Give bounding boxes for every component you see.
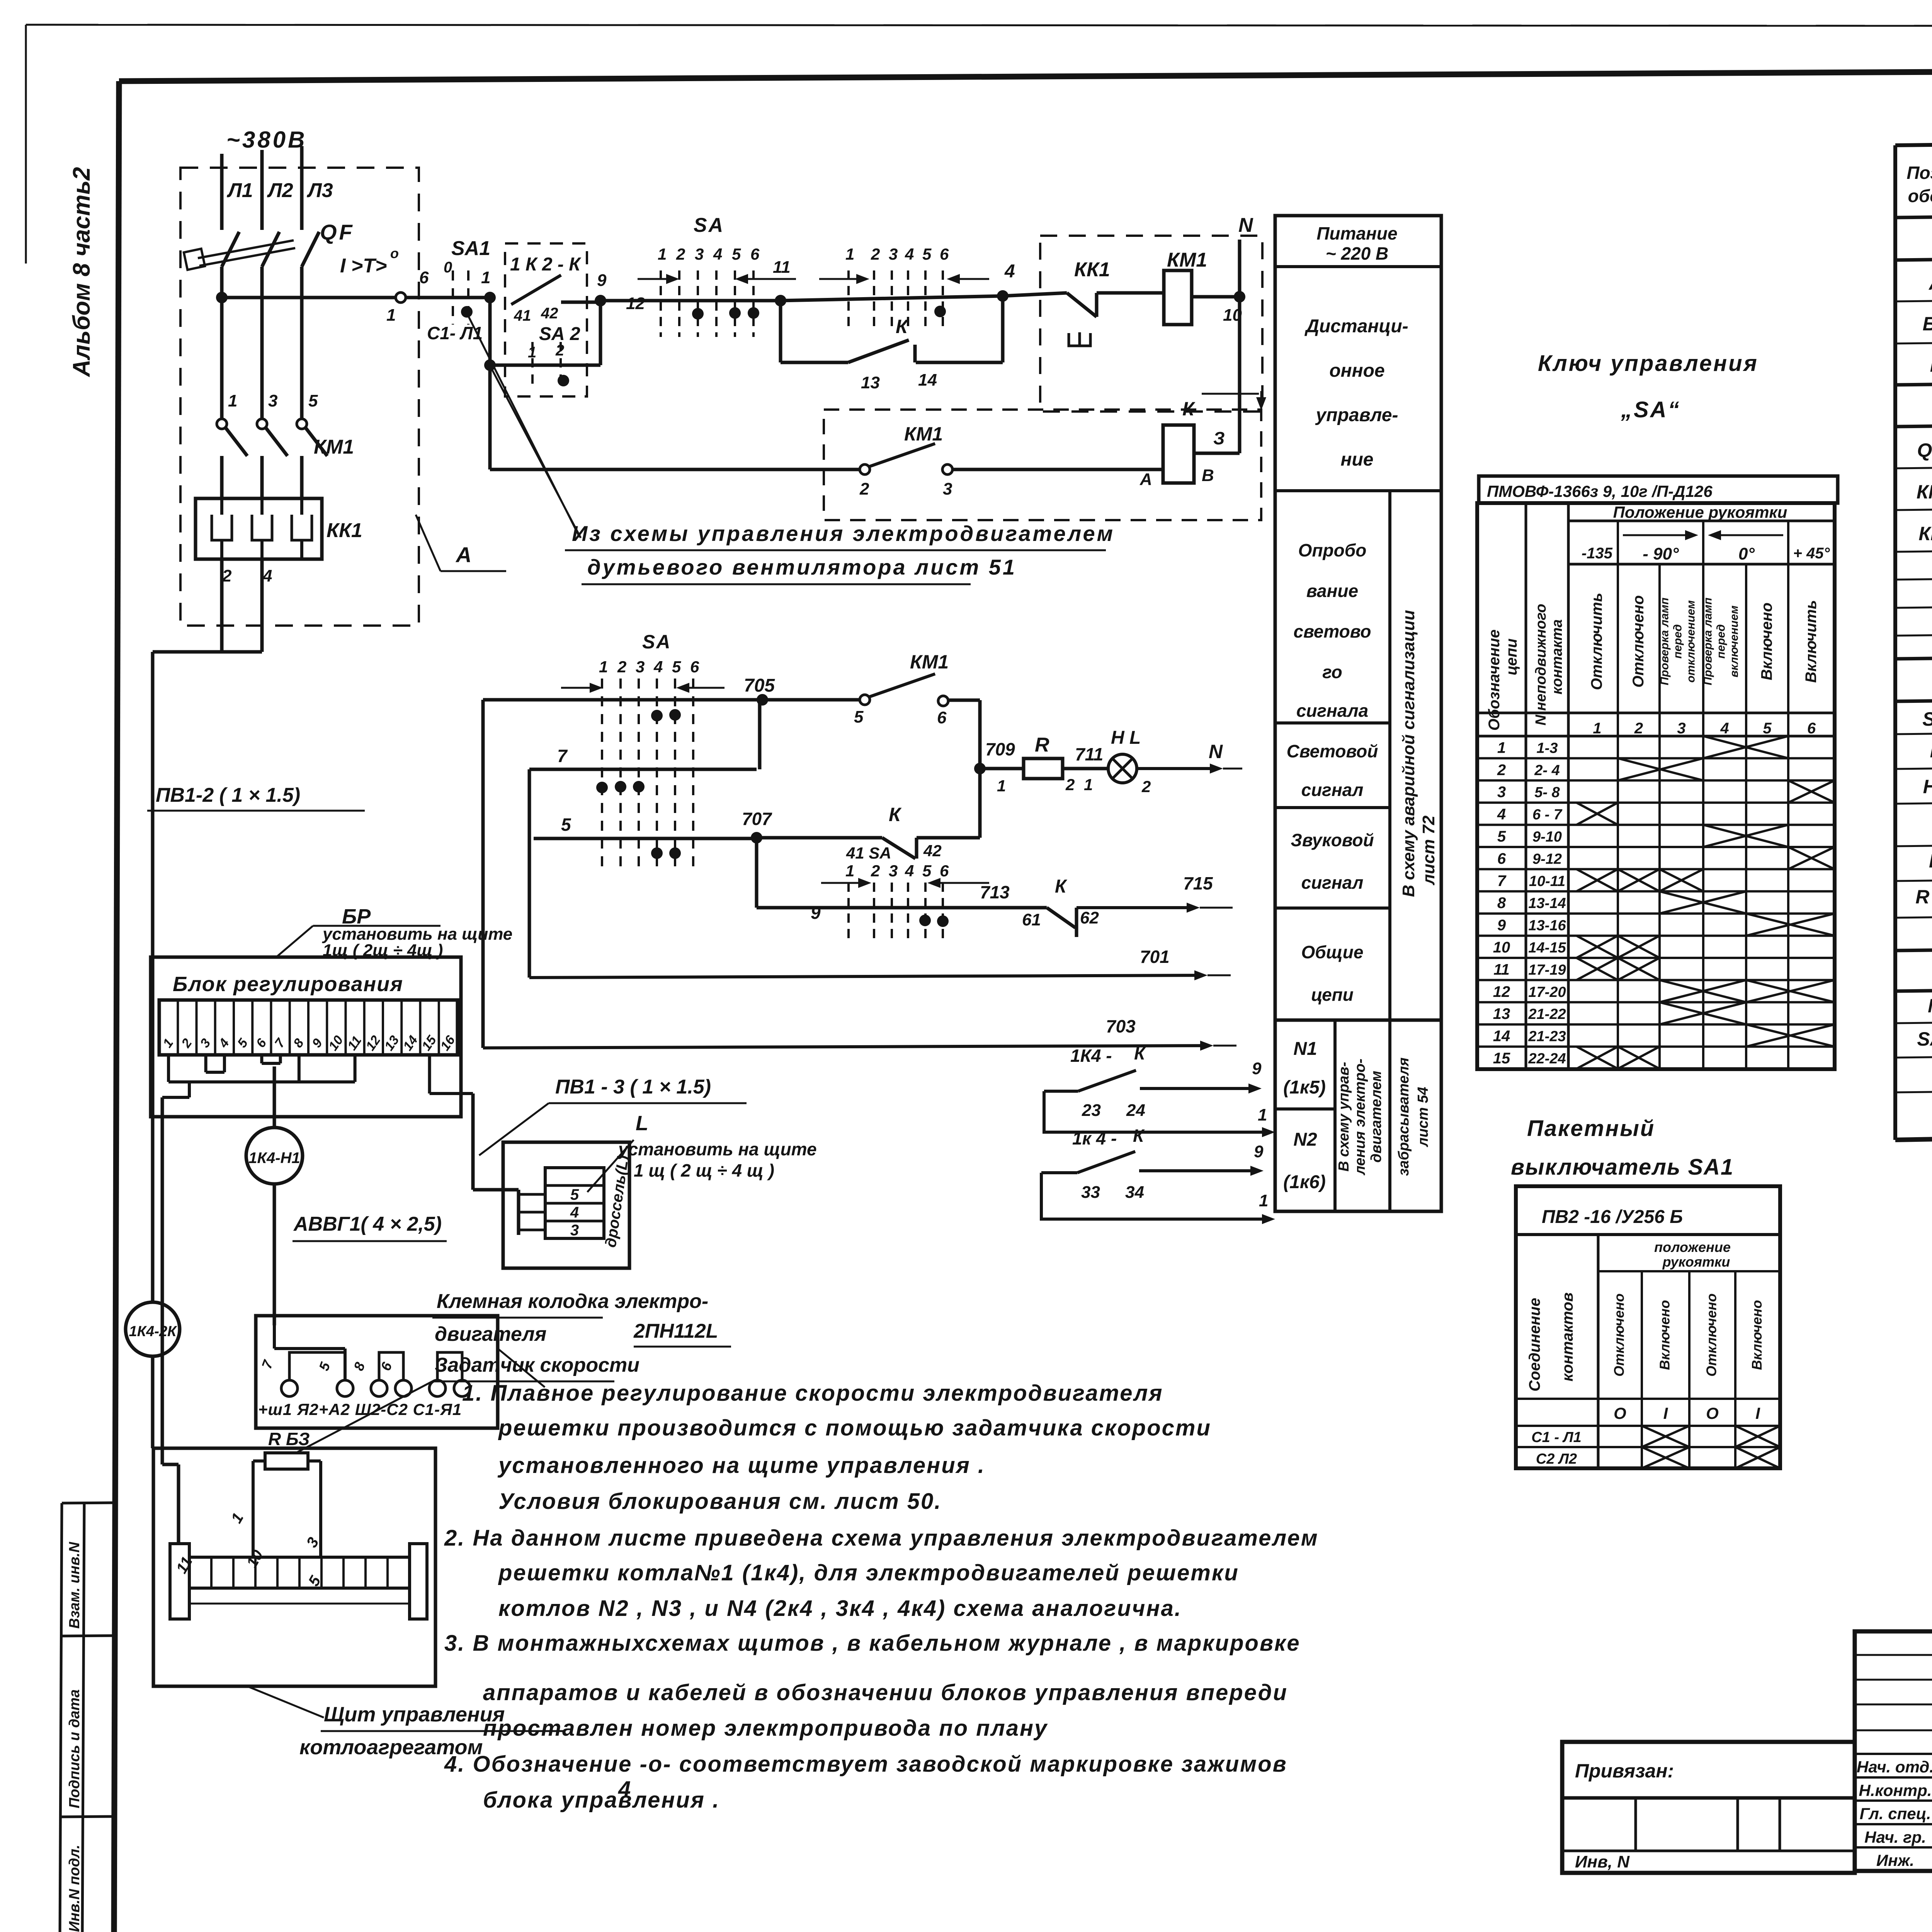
svg-text:12: 12 [1493,983,1510,1000]
iz shemy underline2 [582,583,971,585]
table row line y1212 [1895,459,1932,468]
klemnaya underline2 [634,1346,731,1348]
table row line y2565 [1895,982,1932,991]
SA group2 tick [924,270,927,332]
svg-text:сигнал: сигнал [1301,872,1364,893]
svg-text:двигателя: двигателя [435,1323,546,1345]
sig row line [1855,1846,1932,1849]
polozhenie hdr line [1568,520,1835,522]
svg-text:5: 5 [1763,720,1772,737]
BR box [151,957,461,1117]
svg-text:+ 45°: + 45° [1793,545,1830,562]
svg-text:К: К [1134,1043,1146,1063]
winding divider [276,1557,279,1588]
svg-text:3: 3 [943,480,952,498]
1K4-2K circle [126,1302,180,1356]
BR stub 6 [260,1055,263,1063]
svg-text:(1к5): (1к5) [1283,1077,1326,1098]
svg-text:3: 3 [197,1036,214,1050]
SA group2 tick [891,270,893,332]
drossel stubs [519,1193,545,1196]
K coil to N [1194,452,1240,455]
SA row 15 X [1618,1047,1660,1069]
KM1 main contact blades [225,427,247,456]
BR strip divider [233,1000,235,1055]
svg-text:16: 16 [437,1032,458,1053]
svg-text:КК1: КК1 [1074,259,1110,281]
SA row line 7 [1477,890,1835,893]
SA field tick [692,679,694,873]
svg-text:1к 4 -: 1к 4 - [1072,1128,1117,1148]
bypass left riser [779,301,782,362]
SA1 col line [1734,1271,1736,1468]
svg-text:HL: HL [1923,776,1932,798]
svg-text:5: 5 [235,1036,251,1050]
1K4-K c2 arrow1 [1200,1218,1262,1221]
BR stub 11 [354,1055,357,1082]
junction 705 [757,694,768,706]
svg-text:перед: перед [1715,624,1728,659]
SA field2 tick [942,883,944,943]
SA row line 9 [1477,935,1835,937]
svg-text:блока управления .: блока управления . [483,1787,720,1813]
BR stub 4 [223,1055,226,1072]
junction dot 4 [997,290,1009,302]
svg-text:R БЗ: R БЗ [268,1429,310,1449]
svg-text:цепи: цепи [1503,638,1520,675]
terminal circle [337,1380,353,1396]
SA dots 705 [651,710,663,721]
KK1 out wires [220,559,224,652]
1K4-K c1 arrow1 [1200,1131,1262,1134]
table row line y2648 [1895,1014,1932,1023]
svg-text:~ 220 В: ~ 220 В [1326,243,1388,264]
svg-text:1К4 -: 1К4 - [1070,1046,1112,1066]
BR terminal strip [159,1000,457,1055]
winding divider [298,1557,301,1588]
wire 42-9 [561,301,600,304]
KM1 aux circle 2 [860,464,870,474]
svg-text:Инж.: Инж. [1876,1851,1914,1869]
svg-text:Отключить: Отключить [1588,593,1605,690]
QF enclosure dashed box [180,168,419,626]
wire 7 left drop [528,769,531,978]
SA pos col line [1787,564,1789,1069]
svg-text:2: 2 [871,862,880,880]
BR to 1K4H1 wire [273,1066,276,1128]
resistor R [1024,759,1063,779]
SA1 col line [1641,1271,1643,1468]
svg-text:6: 6 [940,862,949,880]
svg-text:ние: ние [1340,449,1373,470]
svg-text:2: 2 [859,480,869,498]
SA pos col line [1702,564,1704,1069]
svg-text:9: 9 [597,271,607,290]
terminal circle [371,1380,387,1396]
BR strip divider [438,1000,440,1055]
sig row line [1855,1704,1932,1706]
SA group2 dot [934,306,946,317]
BR stub 6-7 bridge [262,1062,280,1065]
SA field2 tick [847,883,850,943]
SA field2 bracket L [821,882,858,884]
svg-text:34: 34 [1125,1183,1144,1202]
svg-text:(1к6): (1к6) [1283,1172,1326,1192]
AVVG underline [293,1240,447,1242]
sig row line [1855,1654,1932,1656]
svg-text:-135: -135 [1582,545,1613,562]
wire 42-709riser [917,836,980,840]
svg-text:Л1: Л1 [226,179,253,202]
svg-text:КМ1: КМ1 [314,436,354,458]
stamp column box [62,1503,116,1503]
svg-text:22-24: 22-24 [1528,1051,1566,1067]
svg-text:701: 701 [1140,947,1170,967]
svg-text:В: В [1202,466,1214,485]
SA row 5 X [1703,825,1788,847]
svg-text:1К4-2К: 1К4-2К [129,1323,177,1340]
SA group1 bracket L [638,278,666,280]
drossel wire [473,1188,519,1192]
svg-text:дутьевого вентилятора лист 5: дутьевого вентилятора лист 51 [587,555,1017,579]
SA row line 14 [1477,1046,1835,1048]
svg-text:3: 3 [889,862,898,880]
SA key col obozn [1525,503,1527,1069]
SA1 polozh line [1598,1270,1780,1272]
svg-text:КМ1: КМ1 [1917,481,1932,503]
privyazan col [1736,1798,1739,1851]
svg-text:24: 24 [1126,1101,1145,1120]
svg-text:М: М [1928,995,1932,1017]
svg-text:Включено: Включено [1759,602,1776,680]
svg-text:1: 1 [658,245,667,263]
KK1 contact blade [1067,293,1097,317]
svg-text:рукоятки: рукоятки [1662,1254,1730,1270]
svg-text:онное: онное [1329,361,1384,381]
privyazan row2 [1562,1850,1855,1852]
svg-text:о: о [390,245,399,261]
SA2 riser [599,301,602,365]
svg-text:- 90°: - 90° [1643,544,1679,563]
R53 left wire [253,1459,265,1463]
SA field tick [638,679,640,873]
svg-text:2: 2 [1141,777,1151,796]
svg-text:2: 2 [676,245,685,263]
cell line svetovoy [1275,806,1390,809]
shit inner wire [189,1603,410,1605]
SA row 10 X [1618,936,1660,958]
shit callout underline [321,1730,564,1732]
SA row 7 X [1618,869,1660,891]
SA group2 tick [907,270,909,332]
svg-text:12: 12 [626,294,645,313]
svg-text:SА 2: SА 2 [539,324,580,344]
wire R-HL [1063,767,1109,770]
N col divider [1333,1020,1337,1211]
svg-text:6: 6 [937,708,947,727]
SA group1 tick [752,270,755,337]
SA field tick [674,679,676,873]
component table top [1895,136,1932,145]
SA row 6 X [1788,847,1835,869]
svg-text:4. Обозначение -о- соответ: 4. Обозначение -о- соответствует заводск… [444,1752,1287,1777]
KM1 aux2 circle5 [860,695,870,705]
K contact blade 707 [882,838,915,859]
terminal block box [256,1316,498,1428]
BR right wire [428,1055,431,1094]
SA dots 7 [596,782,608,793]
A box dashed [1040,236,1262,412]
SA row 13 X [1660,1002,1746,1024]
svg-text:ПВ1-2 ( 1 × 1.5): ПВ1-2 ( 1 × 1.5) [156,784,300,806]
svg-text:8: 8 [1497,895,1506,912]
svg-text:8: 8 [291,1036,307,1050]
1K4-K contact 2 [1041,1173,1200,1219]
svg-text:БР: БР [1923,313,1932,335]
svg-text:N неподвижного: N неподвижного [1533,604,1549,726]
svg-text:713: 713 [980,882,1010,902]
SA key col kontakt [1567,503,1570,1069]
svg-text:SA: SA [1922,708,1932,730]
power wire dot L1 [216,292,228,303]
SA1 X C1 [1642,1426,1689,1447]
wire 7 [529,768,757,771]
svg-text:В схему управ-: В схему управ- [1336,1062,1352,1172]
svg-text:Пакетный: Пакетный [1527,1116,1655,1141]
svg-text:I >T>: I >T> [340,255,387,277]
wire 7 riser [758,700,762,769]
svg-text:4: 4 [1497,806,1506,823]
SA group1 tick [678,270,680,337]
svg-text:11: 11 [1493,961,1510,978]
KM1 aux wire right [952,468,1163,471]
svg-text:R: R [1929,850,1932,872]
svg-text:2ПН112L: 2ПН112L [633,1320,718,1342]
iz shemy underline1 [565,549,1106,551]
svg-text:3: 3 [1677,720,1685,737]
junction 709 [974,763,986,774]
table row line y2080 [1895,794,1932,804]
svg-text:13: 13 [382,1033,402,1053]
svg-text:6: 6 [1807,720,1816,737]
KK1 heater element [300,498,303,515]
terminal circle [429,1380,446,1396]
BR strip divider [419,1000,422,1055]
svg-text:1: 1 [228,391,237,410]
SA1 outer [1516,1186,1780,1468]
QF crossbar [198,240,294,258]
svg-text:SA1: SA1 [1917,1028,1932,1050]
SA field2 tick [873,883,875,943]
SA1 X C2 [1642,1447,1689,1468]
winding left bar [170,1544,189,1619]
winding right bar [410,1544,427,1619]
svg-text:715: 715 [1183,873,1213,893]
SA row 7 X [1577,869,1618,891]
1K4-K c2 stub [1041,1171,1077,1174]
table row line y2460 [1895,941,1932,951]
svg-text:1К4-Н1: 1К4-Н1 [248,1150,300,1167]
svg-text:Щит управления: Щит управления [324,1703,505,1726]
svg-text:6: 6 [750,245,760,263]
svg-text:Отключено: Отключено [1630,595,1647,687]
pitanie cell line2 [1275,489,1441,492]
wire KK1-KM1coil [1097,291,1164,295]
sig row line [1855,1730,1932,1731]
1K4-K c2 arrow9 [1139,1169,1250,1172]
svg-text:К: К [889,804,902,825]
zadatchik underline [432,1381,614,1383]
svg-text:Звуковой: Звуковой [1291,830,1374,850]
svg-text:R 53: R 53 [1915,886,1932,908]
svg-text:9-12: 9-12 [1532,851,1562,867]
table row line y563 [1895,208,1932,218]
svg-text:Питание: Питание [1316,223,1397,243]
svg-text:QF1: QF1 [1917,439,1932,461]
svg-text:2: 2 [1634,720,1643,737]
svg-text:3: 3 [268,391,277,410]
wire 701 arrow [529,975,1194,978]
SA pos col line [1745,564,1747,1069]
svg-text:I: I [1755,1404,1760,1422]
wire 705 [483,698,762,702]
SA row 15 X [1577,1047,1618,1069]
SA row 3 X [1788,781,1835,803]
SA key outer [1477,503,1835,1069]
SA group2 tick [942,270,944,332]
svg-text:Световой: Световой [1287,741,1378,761]
svg-text:Нач. гр.: Нач. гр. [1864,1828,1926,1846]
svg-text:R: R [1035,734,1049,756]
svg-text:АВВГ1( 4 × 2,5): АВВГ1( 4 × 2,5) [293,1213,442,1235]
svg-text:8: 8 [350,1360,368,1373]
numbers row line [1477,712,1835,714]
wire 9 [757,906,1047,910]
SA row line 11 [1477,979,1835,981]
SA field2 tick [907,883,909,943]
SA group1 bracket R [748,278,774,280]
motor bus wire [153,650,262,654]
junction dot 11 [775,295,786,306]
winding divider [320,1557,323,1588]
wire 6-corner [948,699,980,702]
table row line y673 [1895,251,1932,260]
svg-text:17-19: 17-19 [1528,962,1566,978]
svg-text:5: 5 [316,1360,333,1373]
svg-text:I: I [1663,1404,1668,1422]
SA row line 3 [1477,801,1835,804]
KK1 heater box [196,498,322,559]
svg-text:5- 8: 5- 8 [1534,784,1560,801]
svg-text:4: 4 [1720,720,1729,737]
SA row 9 X [1746,913,1835,935]
QF actuator square [184,249,205,270]
svg-text:5: 5 [308,391,318,410]
1K4-H1 circle [246,1128,303,1184]
PV1-3 leader [479,1103,549,1155]
wire 707 drop [755,838,759,908]
left drop wire [151,652,155,1302]
svg-text:703: 703 [1106,1016,1136,1036]
svg-text:4: 4 [216,1036,232,1051]
svg-text:4: 4 [905,245,914,263]
SA1 wire [406,296,490,299]
phase line Л3 top [300,146,304,230]
cell line N2 [1275,1107,1335,1111]
iz shemy leaders [467,314,580,537]
svg-text:15: 15 [1493,1050,1510,1067]
BR strip divider [345,1000,347,1055]
K bypass blade [848,340,909,362]
svg-text:13-14: 13-14 [1528,895,1566,912]
SA field2 tick [924,883,927,943]
svg-text:9-10: 9-10 [1532,829,1562,845]
svg-text:3: 3 [695,245,704,263]
svg-text:К: К [896,316,909,337]
QF blades [222,232,239,267]
SA pos col line [1617,564,1619,1069]
SA1 ticks [452,270,454,325]
svg-text:Л3: Л3 [306,179,333,202]
terminal circle [395,1380,412,1396]
svg-text:13: 13 [861,373,880,392]
svg-text:ПВ1 - 3 ( 1 × 1.5): ПВ1 - 3 ( 1 × 1.5) [555,1076,711,1098]
sheet top edge line [26,25,1932,26]
svg-text:1 К 2 - К: 1 К 2 - К [510,254,582,275]
svg-text:SА1: SА1 [451,237,490,260]
svg-text:двигателем: двигателем [1368,1071,1384,1163]
svg-text:установленного на щите упра: установленного на щите управления . [497,1453,985,1478]
svg-text:14: 14 [400,1033,421,1053]
SA1 left col [1597,1235,1600,1468]
table row line y2375 [1895,908,1932,918]
stamp divider 2 [61,1816,114,1817]
wire 705 to KM1 [762,698,859,702]
wire 5 [534,837,757,840]
svg-text:5: 5 [672,658,681,676]
svg-text:Условия блокирования см. лис: Условия блокирования см. лист 50. [498,1489,942,1514]
svg-text:забрасывателя: забрасывателя [1396,1058,1412,1176]
svg-text:Привязан:: Привязан: [1575,1760,1674,1782]
L leader [587,1140,634,1192]
table row line y2280 [1895,872,1932,881]
SA2 junction dot [484,359,496,371]
SA row 14 X [1746,1024,1835,1046]
svg-text:контакта: контакта [1549,619,1565,695]
power wire 11-4 [781,296,1003,301]
KM1 aux2 blade [869,674,935,697]
svg-text:перед: перед [1672,624,1684,659]
BR drop wire [188,1082,191,1097]
winding divider [210,1557,213,1588]
SA row 1 X [1703,736,1788,758]
BR strip divider [363,1000,366,1055]
zadatchik leader [298,1381,432,1452]
svg-text:2: 2 [617,658,626,676]
terminal wire entry [273,1325,276,1349]
705 corner drop [481,700,485,1048]
svg-text:2. На данном листе привед: 2. На данном листе приведена схема управ… [444,1526,1319,1551]
KM1 lower lines [220,456,224,498]
svg-text:4: 4 [1004,261,1015,282]
pitanie strip outer [1275,216,1441,1211]
bypass bottom right [916,361,1003,364]
BR stub 3 [204,1055,207,1072]
BR strip divider [289,1000,291,1055]
wire 707-Kblade [757,836,882,840]
riser to 709 [978,769,982,838]
sig row line [1855,1776,1932,1779]
